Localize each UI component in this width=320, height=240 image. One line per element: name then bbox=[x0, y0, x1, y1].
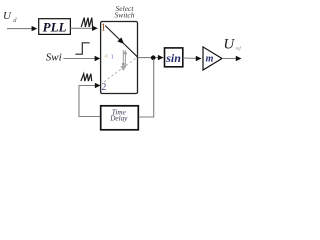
block Select Switch bbox=[101, 22, 138, 94]
wire gain to output bbox=[222, 58, 237, 60]
svg-text:m: m bbox=[206, 53, 214, 64]
svg-text:Delay: Delay bbox=[109, 114, 128, 122]
svg-text:sin: sin bbox=[165, 51, 181, 65]
svg-text:Swi: Swi bbox=[46, 52, 62, 64]
switch arm alternate (dashed, to input 2) bbox=[104, 57, 137, 81]
svg-text:Switch: Switch bbox=[115, 11, 135, 20]
svg-text:U: U bbox=[3, 10, 12, 22]
svg-text:1: 1 bbox=[111, 53, 114, 60]
wire sin to gain m bbox=[183, 57, 197, 59]
wire Swi to switch control bbox=[64, 58, 96, 60]
svg-text:PLL: PLL bbox=[43, 20, 67, 35]
bus width hatch marks on PLL wire bbox=[81, 18, 92, 27]
svg-text:<: < bbox=[104, 52, 108, 60]
step symbol on Swi wire bbox=[75, 43, 89, 54]
svg-text:U: U bbox=[223, 37, 235, 53]
junction node dot bbox=[151, 55, 156, 60]
gain block m (triangle) bbox=[203, 47, 222, 70]
switch motion indicator double arrow bbox=[122, 50, 124, 64]
svg-text:1: 1 bbox=[101, 22, 106, 33]
block Time Delay bbox=[101, 106, 139, 130]
switch arm (active, to input 1) bbox=[105, 26, 137, 57]
bus width hatch marks on feedback wire bbox=[81, 74, 92, 81]
svg-text:ref: ref bbox=[235, 47, 241, 52]
wire junction down to Time Delay input bbox=[140, 59, 154, 117]
block PLL bbox=[39, 19, 71, 35]
wire switch output to sin bbox=[138, 57, 159, 59]
svg-text:2: 2 bbox=[101, 82, 106, 93]
block sin bbox=[165, 48, 183, 67]
wire Ud to PLL bbox=[7, 28, 33, 30]
wire PLL to switch input 1 bbox=[70, 27, 93, 29]
wire feedback into switch input 2 bbox=[79, 86, 101, 117]
